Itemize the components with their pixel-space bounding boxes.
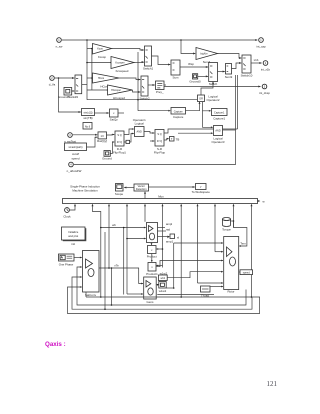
wire down to sin [59, 78, 81, 112]
wire AND1 to FF2 [144, 132, 154, 134]
subsystem SatConv [83, 251, 100, 298]
bus input arrow x215 [214, 204, 216, 251]
wire Rotor speed out to tag [239, 271, 240, 273]
wire Ground to FF1 [110, 142, 114, 153]
svg-text:amp1: amp1 [166, 240, 174, 244]
wire SatQy out [118, 112, 124, 114]
bus input arrow x92.5 [93, 204, 101, 250]
node on y40 at x87 [86, 39, 88, 41]
svg-text:Qaxis :: Qaxis : [45, 341, 66, 348]
source T-load [201, 286, 211, 298]
svg-text:Rat(Qy): Rat(Qy) [97, 139, 107, 143]
wire vco out a [158, 227, 166, 229]
node y297 x181 [180, 296, 182, 298]
wire port3 to RatQy [73, 134, 97, 136]
svg-text:int_dxsp: int_dxsp [259, 91, 270, 95]
subsystem Rotor [224, 237, 239, 294]
svg-text:Kcosp: Kcosp [98, 55, 106, 59]
feedback loop outer [68, 287, 260, 314]
wire Gens out to tag lower [157, 284, 159, 286]
node wb x92.5 [100, 227, 102, 229]
svg-text:Switch10: Switch10 [241, 73, 253, 77]
svg-text:HCos: HCos [100, 85, 108, 89]
wire vertical x173.7 [173, 243, 175, 288]
wire FF2 to tag [164, 139, 169, 140]
goto tag B small [126, 140, 130, 143]
svg-text:and plot: and plot [68, 234, 78, 238]
wire FF2 top out to feedback [164, 129, 238, 133]
wire Kcosper to Switch1 [134, 62, 144, 64]
mux bus bar [63, 195, 258, 204]
datastore cylinder Torque [222, 218, 231, 232]
svg-text:Operator1: Operator1 [133, 118, 146, 122]
block Initialize and plot [62, 227, 87, 246]
product Product1 [146, 263, 158, 277]
wire Tem loop [234, 221, 247, 246]
wire Switch1 out [152, 56, 171, 65]
svg-text:121: 121 [267, 380, 278, 388]
wire tag upper to Rotor [167, 272, 223, 278]
svg-text:GroundBlank#4: GroundBlank#4 [58, 95, 78, 99]
logic OR Logical Operator2 [198, 95, 220, 103]
wire vertical x111.5 [111, 268, 113, 305]
svg-text:AND: AND [215, 130, 220, 133]
fcn block sin [82, 109, 95, 121]
svg-text:int_x1b: int_x1b [261, 68, 271, 72]
wire RatQy to FF1 [107, 134, 115, 137]
svg-text:sin(TB): sin(TB) [83, 116, 92, 120]
wire OR up to Switch [201, 82, 213, 95]
wire bigKer to Switch10 [218, 54, 242, 59]
wire vertical x123.7 [123, 228, 125, 295]
wire Switch out to Sum9 [218, 71, 225, 73]
svg-text:Kcos: Kcos [97, 48, 103, 51]
svg-text:Ground0: Ground0 [189, 80, 201, 84]
gain bigKer [196, 48, 218, 65]
svg-text:One Phase: One Phase [59, 263, 74, 267]
BOTTOM DIAGRAM [59, 184, 266, 314]
wire stub to HCosper [87, 89, 108, 91]
wire y294.5 right [157, 294, 214, 296]
svg-text:sl: sl [177, 236, 179, 240]
ground Ground [102, 151, 112, 161]
wire port1 to out1 [62, 39, 257, 41]
ground block GroundBlank#4 [58, 88, 78, 100]
wire sin to satqy [95, 112, 109, 114]
switch Switch1 [143, 46, 154, 70]
svg-text:Detection: Detection [136, 188, 147, 191]
svg-text:Operator3: Operator3 [211, 140, 224, 144]
svg-text:Kcosper: Kcosper [115, 62, 124, 65]
wire smash to RatQy [87, 137, 98, 147]
svg-text:rad: rad [166, 228, 171, 232]
subsystem VCO [147, 223, 158, 243]
wire x127 to vco [127, 238, 146, 240]
source One Phase [59, 254, 75, 267]
svg-text:init: init [71, 242, 75, 246]
input port 2 d_Va [49, 76, 56, 87]
node x127 [126, 238, 128, 240]
wire Switch2 to Prey [148, 84, 155, 86]
wire FF1 to AND1 b [124, 134, 134, 143]
bus input arrow x109 [108, 204, 110, 268]
svg-text:Capture1: Capture1 [214, 112, 225, 115]
svg-text:Gens: Gens [147, 300, 154, 304]
flip-flop FF1 [113, 131, 126, 155]
wire OnePhase to SatConv [74, 257, 82, 259]
wire vco out b to tag [158, 236, 170, 238]
svg-text:Scope: Scope [115, 192, 124, 196]
block smash path [65, 143, 87, 160]
input port 4 n_dAxisFW [67, 162, 82, 173]
svg-text:Flip-Flop: Flip-Flop [154, 151, 166, 155]
wire AND3 out [223, 129, 236, 131]
bus input arrow x251.5 [251, 204, 253, 297]
svg-text:Prey_: Prey_ [156, 90, 164, 94]
wire stub to Kcosper [87, 62, 111, 64]
svg-text:S Q: S Q [117, 134, 121, 137]
goto tag lower 4B [159, 282, 167, 293]
svg-text:Torque: Torque [222, 228, 231, 232]
svg-text:vTe: vTe [114, 264, 119, 268]
wire into bigKer [181, 40, 195, 54]
wire FF2 second input [150, 140, 154, 142]
svg-text:Ground: Ground [102, 157, 112, 161]
svg-text:Operator2: Operator2 [206, 98, 219, 102]
svg-text:SatConv: SatConv [85, 293, 97, 297]
svg-text:Tem: Tem [240, 241, 246, 245]
svg-text:HCos: HCos [98, 77, 105, 80]
wire Prey to out3 [164, 86, 260, 88]
svg-text:sin(u[1]): sin(u[1]) [83, 112, 92, 115]
wire Sum9 to Switch10 [232, 63, 242, 69]
wire tag column vertical [166, 287, 173, 289]
svg-text:Clock: Clock [63, 215, 71, 219]
svg-text:AND: AND [137, 131, 142, 134]
svg-text:HCosped: HCosped [113, 96, 125, 100]
wire Sum out Wsp [180, 66, 208, 68]
svg-text:Capture: Capture [173, 115, 184, 119]
wire vertical mid x136.5 [137, 52, 139, 111]
gain Kcosper [111, 57, 134, 74]
output port 1 int_cap [255, 38, 266, 49]
bus input arrow x197.5 [197, 204, 199, 283]
switch DswitchB [75, 75, 82, 94]
wire vTe out of SatConv [99, 268, 143, 284]
svg-text:w1b: w1b [161, 277, 166, 280]
svg-text:Rotor: Rotor [227, 289, 234, 293]
input port 1 n_sw [56, 38, 64, 49]
wire selector to scope [124, 187, 134, 189]
switch Switch [209, 63, 218, 86]
unit delay RatQy [97, 132, 107, 143]
wire vco down to product [151, 243, 153, 245]
sum block Sum [171, 60, 180, 79]
feedback loop middle [72, 277, 252, 309]
svg-text:To Workspace: To Workspace [192, 190, 211, 194]
ground Ground0 [189, 74, 201, 84]
wire stub to HCos [87, 77, 93, 79]
svg-text:Capture: Capture [174, 110, 184, 113]
bus input arrow x145 [144, 204, 146, 221]
output port 3 int_dxsp [259, 84, 270, 95]
svg-text:HCosper: HCosper [111, 89, 121, 92]
subsystem Gens [144, 277, 157, 304]
block Capture [171, 108, 186, 119]
wire x127 into Gens [127, 293, 143, 295]
wire satconv bottom to y297 [85, 292, 87, 297]
wire T-load to Rotor [210, 286, 223, 288]
wire HCosper to Switch2 [133, 90, 141, 92]
svg-text:Kcospeed: Kcospeed [116, 69, 129, 73]
wire Ground0 to Switch [198, 75, 208, 77]
wire selector input from bus [144, 192, 146, 199]
bus input arrow x162.5 [162, 204, 164, 267]
wire x215 to Rotor [215, 251, 223, 253]
svg-text:bigXer: bigXer [200, 53, 207, 56]
svg-text:Capture1: Capture1 [213, 116, 225, 120]
svg-text:int_cap: int_cap [256, 45, 266, 49]
sum block Sum9 [225, 64, 233, 79]
svg-text:speed: speed [72, 156, 80, 160]
wire x197 into Rotor [198, 282, 223, 284]
wire HCos to Switch2 [119, 78, 140, 80]
bus input arrow x181 [180, 204, 182, 297]
svg-text:n_dAxisFW: n_dAxisFW [67, 169, 82, 173]
wire vertical x87 [86, 40, 88, 100]
svg-text:x1b: x1b [254, 58, 259, 62]
svg-text:Machine Simulation: Machine Simulation [72, 189, 98, 193]
wire into Capture [138, 110, 170, 112]
product Product [147, 246, 157, 259]
node x58.5 on port2 wire [58, 77, 60, 79]
svg-text:Mux: Mux [158, 195, 164, 199]
svg-text:Wsp: Wsp [188, 62, 194, 66]
gain HCosper [108, 85, 133, 100]
bus input arrow x127 [126, 204, 128, 294]
fcn block SatQy [110, 109, 119, 122]
svg-text:Sum9: Sum9 [225, 75, 233, 79]
wire vertical x100.8 [100, 250, 102, 297]
feedback loop inner [77, 267, 246, 305]
svg-text:OR: OR [199, 98, 203, 101]
svg-text:Flip-Flop1: Flip-Flop1 [113, 151, 126, 155]
svg-text:Switch1: Switch1 [143, 66, 154, 70]
svg-text:SatQy: SatQy [110, 118, 119, 122]
svg-text:TB: TB [176, 137, 180, 141]
wire Capture to OR [186, 102, 200, 111]
wire into AND3 b [178, 132, 213, 134]
switch Switch10 [241, 55, 253, 77]
gain HCos [93, 73, 120, 89]
node on y40 at x174 [180, 39, 182, 41]
svg-text:w1w2: w1w2 [159, 289, 167, 293]
switch Switch2 [139, 76, 150, 100]
logic AND Logical Operator3 [211, 126, 224, 144]
bus input arrow x233.5 [233, 204, 235, 227]
flip-flop FF2 [154, 130, 166, 155]
scope Scope [115, 184, 124, 196]
svg-text:Product1: Product1 [146, 272, 158, 276]
TOP DIAGRAM [49, 38, 271, 173]
svg-text:d_Va: d_Va [49, 83, 56, 87]
svg-text:R !Q: R !Q [117, 141, 122, 144]
wire x162 stub to Product [156, 248, 162, 250]
wire clock to bus [70, 204, 75, 210]
wire vertical x105 [104, 232, 106, 309]
wire wb to vco [101, 227, 146, 229]
integrator Prey [156, 81, 165, 94]
svg-text:ampl: ampl [166, 222, 173, 226]
logic AND Logical Operator1 [133, 118, 146, 137]
output port 2 int_x1b [261, 61, 271, 72]
wire Rotor input y243 [174, 242, 223, 244]
wire bus out w [258, 200, 260, 202]
wire OR branch to Capture1 [203, 102, 211, 111]
wire selector to workspace [149, 186, 195, 188]
block Vector Detection Selector [134, 184, 149, 191]
wire stub to Kcos [87, 48, 93, 50]
wire into AND3 a [211, 126, 213, 128]
gain Kcos [93, 44, 112, 60]
goto tag wqs [170, 234, 179, 240]
input port 3 n_swTset [64, 133, 76, 144]
svg-text:n_sw: n_sw [56, 45, 64, 49]
svg-text:Sum: Sum [173, 75, 180, 79]
wire ground to switchB [72, 90, 75, 92]
wire Kcos to Switch1 [112, 49, 144, 51]
const block No6 [83, 123, 92, 130]
block To Workspace [192, 184, 211, 195]
wire cylinder to Tem loop [231, 220, 234, 222]
block Capture1 [212, 109, 228, 121]
goto tag speed [240, 270, 253, 275]
svg-text:R !Q: R !Q [157, 140, 162, 143]
wire FF1 to AND1 a [124, 129, 134, 135]
goto tag TB [170, 137, 180, 142]
wire port2 to switchB [55, 77, 74, 79]
wire port4 feedback right [74, 75, 236, 165]
svg-text:S Q: S Q [157, 133, 161, 136]
svg-text:wb: wb [112, 223, 116, 227]
wire product to product1 [151, 254, 153, 262]
wire Product1 out to Rotor [156, 261, 223, 267]
wire x1b to out2 [251, 62, 262, 64]
wire vco out mid [158, 230, 167, 232]
wire switchB up to bus [82, 84, 87, 86]
clock Clock [63, 208, 71, 219]
node vTe x109 [108, 267, 110, 269]
svg-text:smash(path): smash(path) [69, 146, 83, 149]
svg-text:speed: speed [243, 271, 250, 274]
wire feedback x237.5 [237, 75, 239, 129]
wire x162 stub to Product1 [156, 265, 162, 267]
svg-text:No.6: No.6 [85, 125, 91, 128]
